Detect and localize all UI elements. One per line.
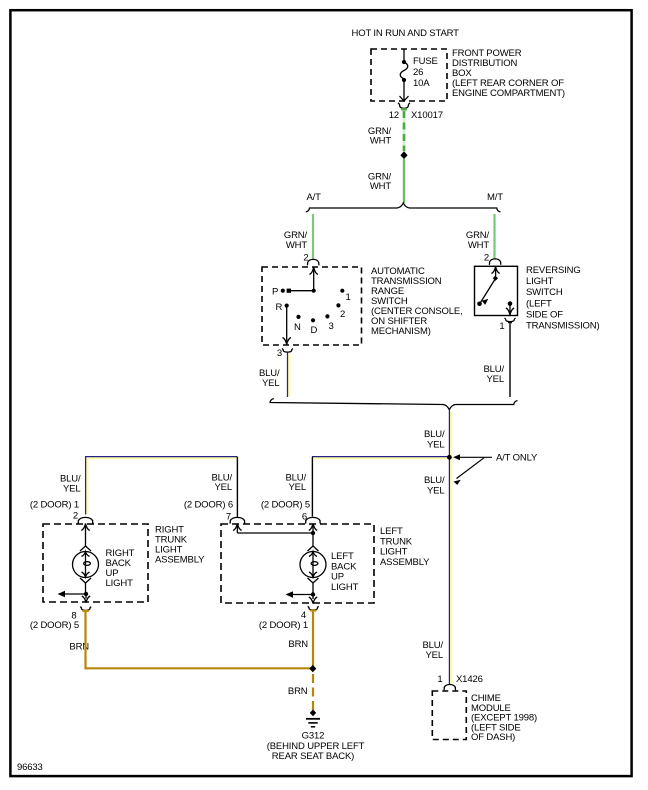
wire drop to left lamp pin 7 (black) [236, 457, 238, 517]
svg-text:WHT: WHT [370, 181, 392, 192]
svg-text:REAR SEAT BACK): REAR SEAT BACK) [272, 751, 354, 762]
svg-text:A/T: A/T [307, 192, 322, 203]
svg-text:M/T: M/T [487, 192, 503, 203]
connector arc (right lamp pin 2) [78, 517, 93, 523]
svg-text:BLU/: BLU/ [424, 475, 445, 486]
wire BRN (left lamp to junction) [312, 610, 314, 666]
wire GRN/WHT (dashed, fuse to junction) [403, 109, 406, 151]
connector arc (ATRS pin 3) [282, 349, 293, 353]
left trunk light assembly (dashed box) [221, 524, 374, 603]
svg-text:(2 DOOR) 1: (2 DOOR) 1 [259, 620, 308, 631]
svg-text:3: 3 [277, 348, 282, 359]
wire (reversing pin1 to merge brace) [509, 324, 511, 398]
right trunk light assembly (dashed box) [43, 524, 148, 602]
connector arc (reversing pin 2) [489, 259, 501, 265]
svg-text:BRN: BRN [288, 686, 308, 697]
wire BLU/YEL branch (pin7 riser to right lamp) [87, 457, 237, 459]
wire BLU/YEL branch (junction to left lamp) [313, 457, 450, 459]
junction (diamond) [309, 665, 316, 672]
svg-text:BLU/: BLU/ [424, 429, 445, 440]
wire BLU/YEL (ATRS pin3 down) [288, 354, 290, 397]
wire BRN (right lamp to junction) [86, 610, 313, 669]
svg-text:96633: 96633 [17, 762, 43, 773]
connector arc (ATRS pin 2) [307, 259, 319, 265]
svg-text:10A: 10A [413, 78, 430, 89]
svg-text:YEL: YEL [262, 378, 280, 389]
svg-text:2: 2 [73, 511, 78, 522]
svg-text:A/T ONLY: A/T ONLY [496, 453, 538, 464]
wire GRN/WHT (junction to brace) [403, 159, 405, 203]
svg-text:26: 26 [413, 67, 423, 78]
svg-text:YEL: YEL [427, 486, 445, 497]
wiper output to pin 3 [283, 306, 291, 345]
connector arc (left lamp pin 6) [305, 517, 320, 523]
svg-text:3: 3 [329, 321, 334, 332]
ground G312 [310, 710, 316, 717]
svg-text:YEL: YEL [214, 482, 232, 493]
svg-text:1: 1 [346, 292, 351, 303]
wire BRN (dashed, to ground) [312, 674, 314, 710]
connector arc (reversing pin 1) [505, 318, 516, 322]
wire GRN/WHT A/T branch [312, 214, 314, 260]
connector X10017 pin 12 [398, 103, 410, 109]
svg-text:(2 DOOR) 5: (2 DOOR) 5 [30, 620, 79, 631]
right back up light (bulb) [63, 524, 99, 603]
connector arc (right lamp pin 8) [80, 607, 91, 611]
svg-text:FUSE: FUSE [413, 56, 438, 67]
svg-text:YEL: YEL [288, 482, 306, 493]
svg-text:R: R [276, 302, 283, 313]
wire BLU/YEL (main, brace to chime) [450, 412, 452, 685]
svg-text:X1426: X1426 [456, 674, 483, 685]
svg-text:1: 1 [499, 321, 504, 332]
junction (diamond) [400, 151, 407, 159]
svg-text:WHT: WHT [286, 240, 308, 251]
svg-text:12: 12 [389, 110, 399, 121]
svg-text:1: 1 [437, 674, 442, 685]
fuse 26 10A [400, 49, 409, 101]
reversing light switch (box) [475, 266, 518, 315]
svg-text:(2 DOOR) 1: (2 DOOR) 1 [30, 500, 79, 511]
svg-text:YEL: YEL [63, 484, 81, 495]
svg-text:D: D [311, 325, 318, 336]
svg-text:2: 2 [484, 253, 489, 264]
wire GRN/WHT M/T branch [493, 214, 495, 260]
junction + A/T ONLY callout [447, 455, 452, 460]
branch brace (A/T , M/T) [306, 203, 501, 212]
svg-text:YEL: YEL [427, 440, 445, 451]
wire drop to left lamp pin 6 (black) [311, 457, 313, 517]
svg-text:RIGHTBACKUPLIGHT: RIGHTBACKUPLIGHT [106, 548, 135, 589]
svg-text:WHT: WHT [370, 136, 392, 147]
wiper line to P [289, 290, 314, 292]
svg-text:WHT: WHT [468, 240, 490, 251]
svg-text:YEL: YEL [486, 374, 504, 385]
svg-text:BRN: BRN [288, 639, 308, 650]
svg-text:YEL: YEL [425, 650, 443, 661]
pin2 arrow into switch [310, 267, 318, 275]
switch contacts [281, 289, 285, 293]
left back up light (bulb + pin7 link) [233, 524, 326, 604]
connector arc (left lamp pin 4) [308, 606, 319, 610]
connector arc (left lamp pin 7) [230, 517, 245, 523]
svg-text:2: 2 [340, 309, 345, 320]
chime module (dashed box) [432, 691, 466, 740]
automatic transmission range switch (dashed box) [262, 267, 362, 345]
svg-text:HOT IN RUN AND START: HOT IN RUN AND START [352, 28, 460, 39]
svg-text:N: N [294, 322, 301, 333]
svg-text:(2 DOOR) 5: (2 DOOR) 5 [261, 500, 310, 511]
svg-text:(2 DOOR) 6: (2 DOOR) 6 [184, 500, 233, 511]
front power distribution box (dashed) [371, 49, 447, 101]
svg-text:X10017: X10017 [411, 110, 443, 121]
svg-text:P: P [272, 287, 278, 298]
reversing switch internals [481, 267, 515, 316]
merge brace [270, 399, 517, 410]
